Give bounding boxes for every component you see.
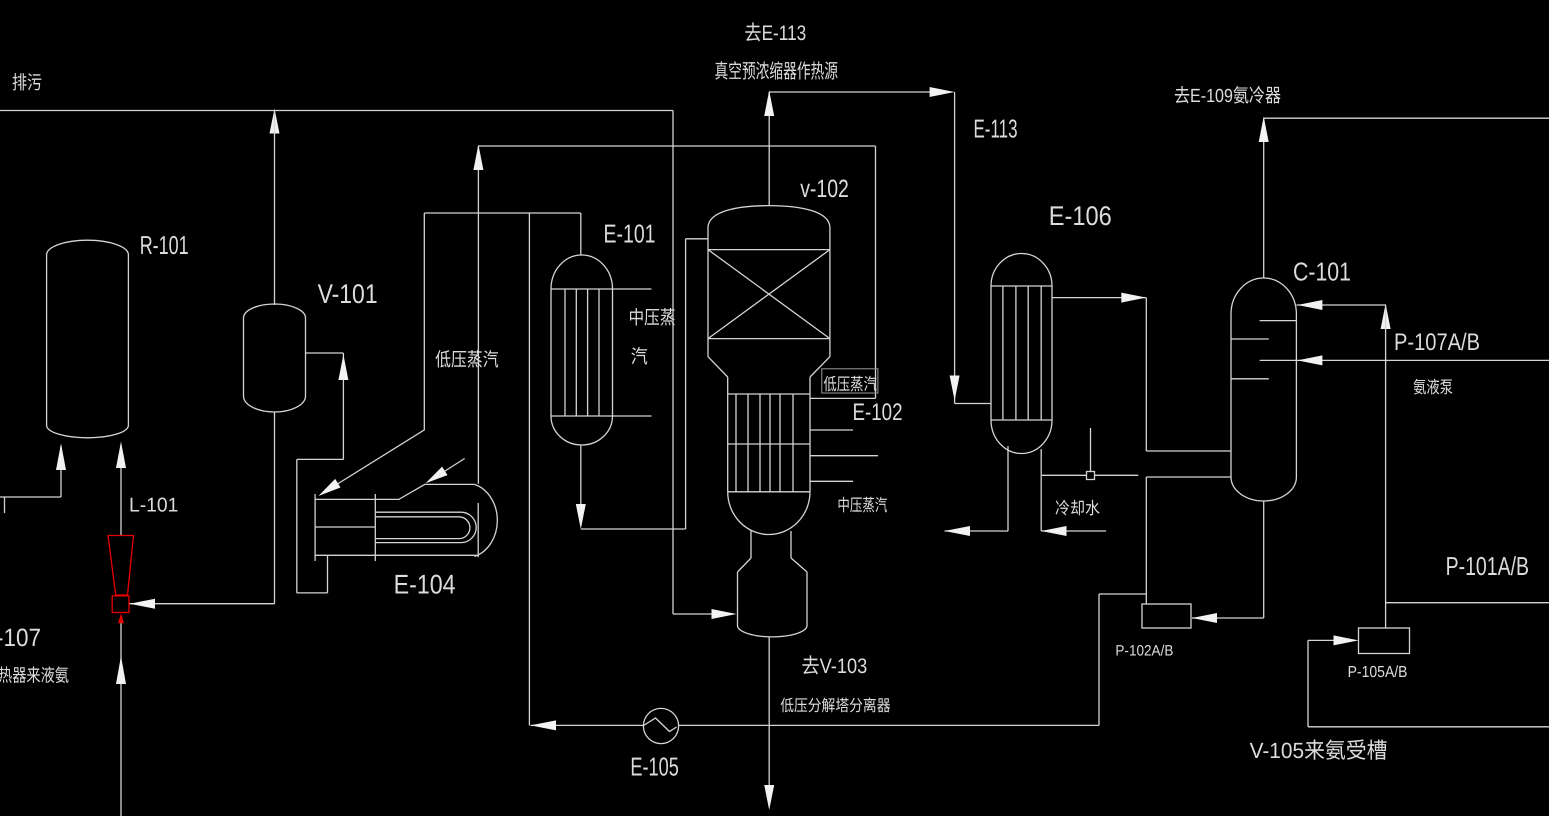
svg-text:-107: -107 — [0, 624, 41, 652]
arrow up into R-101 bottom center — [116, 442, 126, 469]
heat exchanger E-101 shell — [551, 255, 613, 445]
heat exchanger E-106 tubesheet lines — [991, 286, 1052, 420]
wire v-102 side nozzles — [810, 398, 878, 481]
pump P-102A/B box — [1142, 604, 1191, 628]
wire E-101 bottom outlet — [580, 445, 582, 517]
svg-text:冷却水: 冷却水 — [1055, 499, 1100, 518]
heat exchanger E-105 zigzag — [644, 718, 677, 732]
arrow left at recycle riser bottom — [531, 720, 557, 730]
wire blowdown drop to v-102 funnel — [673, 111, 713, 615]
svg-text:v-102: v-102 — [800, 175, 849, 203]
wire low pressure steam drop to E-104 bonnet — [477, 146, 479, 484]
crosshair cursor pick box — [1087, 472, 1095, 480]
heat exchanger E-104 hairpin tube inner — [375, 517, 470, 539]
column v-102 packing X section — [708, 250, 830, 339]
wire C-101 bottom center to P-102 — [1192, 501, 1264, 618]
svg-text:E-106: E-106 — [1049, 201, 1112, 231]
column v-102 cone reducer — [708, 357, 830, 377]
arrow right at overhead east end — [930, 87, 955, 97]
column C-101 trays — [1231, 321, 1296, 379]
arrow left cooling water out — [945, 526, 971, 536]
heat exchanger E-105 circle — [643, 708, 678, 743]
wire P-107 riser from P-105 — [1385, 305, 1387, 628]
wire V-101 right nozzle loop — [297, 353, 344, 593]
svg-text:C-101: C-101 — [1293, 257, 1351, 287]
arrow up at v-102 overhead — [764, 91, 774, 117]
svg-text:低压蒸汽: 低压蒸汽 — [435, 350, 499, 371]
wire E-106 cooling water out — [945, 530, 1009, 532]
wire ejector motive feed lower — [120, 623, 122, 816]
arrow up into R-101 bottom left — [56, 444, 66, 471]
vessel V-101 — [244, 304, 306, 412]
arrow down at v-102 bottoms — [764, 785, 774, 810]
arrow left into C-101 upper nozzle — [1297, 300, 1322, 310]
arrow red small up into ejector bottom — [118, 614, 124, 624]
arrow left into E-106 bottom — [1041, 526, 1066, 536]
wire V-101 bottom drop to ejector suction — [274, 412, 276, 604]
arrow right into P-105 pump — [1334, 635, 1359, 645]
arrow up on ejector motive feed — [116, 656, 126, 684]
wire recycle branch junction — [1099, 594, 1146, 725]
wire R-101 center feed upper — [120, 446, 122, 535]
wire ejector suction from V-101 drop — [130, 603, 275, 605]
svg-text:真空预浓缩器作热源: 真空预浓缩器作热源 — [715, 61, 839, 83]
wire recycle riser x529 — [528, 213, 530, 725]
heat exchanger E-104 hairpin tube outer — [375, 512, 476, 542]
arrow right into v-102 funnel — [712, 609, 737, 619]
heat exchanger E-104 right bonnet — [475, 484, 498, 557]
svg-text:V-101: V-101 — [318, 279, 378, 309]
vessel R-101 — [47, 240, 129, 438]
svg-text:E-101: E-101 — [604, 219, 656, 249]
svg-text:去V-103: 去V-103 — [801, 655, 867, 678]
svg-text:V-105来氨受槽: V-105来氨受槽 — [1250, 738, 1388, 763]
wire E-106 outlet to C-101 — [1052, 298, 1231, 451]
column v-102 neck — [751, 531, 791, 559]
arrow up at C-101 overhead — [1259, 117, 1269, 143]
pump P-105A/B box — [1359, 628, 1410, 654]
wire top cross header y213 — [424, 212, 581, 214]
arrow diagonal onto E-104 shell top — [426, 467, 448, 484]
wire C-101 overhead to E-109 — [1264, 118, 1549, 278]
svg-text:中压蒸汽: 中压蒸汽 — [837, 496, 887, 515]
svg-text:E-104: E-104 — [394, 570, 456, 600]
svg-text:P-105A/B: P-105A/B — [1348, 664, 1408, 681]
crosshair cursor vertical — [1090, 428, 1092, 472]
svg-text:E-113: E-113 — [974, 114, 1018, 144]
svg-text:P-102A/B: P-102A/B — [1115, 643, 1173, 660]
svg-text:P-101A/B: P-101A/B — [1446, 551, 1529, 581]
wire steam header y146 to v-102 — [478, 146, 875, 398]
arrow up at reflux elbow — [1381, 304, 1391, 330]
wire blowdown header — [0, 110, 673, 112]
heat exchanger E-104 shell outline — [315, 484, 478, 555]
svg-text:P-107A/B: P-107A/B — [1394, 329, 1480, 356]
svg-text:去E-109氨冷器: 去E-109氨冷器 — [1174, 86, 1281, 107]
arrow left into P-102 pump — [1192, 613, 1217, 623]
heat exchanger E-106 shell — [991, 254, 1052, 454]
column v-102 shell top — [708, 206, 830, 357]
arrow left into ejector side — [130, 599, 156, 609]
heat exchanger E-106 tubes — [1003, 286, 1041, 420]
wire flow indication diagonal at E-104 — [430, 459, 465, 481]
svg-text:R-101: R-101 — [140, 230, 189, 260]
arrow right at E-106 outlet elbow — [1121, 293, 1146, 303]
arrow up at steam header west end — [473, 145, 483, 171]
arrow down at E-101 outlet — [576, 504, 586, 529]
wire E-101 top nozzle — [580, 213, 582, 255]
svg-text:低压蒸汽: 低压蒸汽 — [823, 375, 877, 394]
ejector L-101 funnel (red) — [108, 536, 134, 596]
svg-text:氨液泵: 氨液泵 — [1413, 378, 1453, 397]
wire E-106 bottom legs — [1008, 446, 1041, 531]
arrow left into C-101 mid nozzle — [1297, 355, 1322, 365]
heat exchanger E-101 tubes — [565, 289, 599, 416]
wire P-101 suction header — [1386, 602, 1549, 604]
wire C-101 bottoms left to pump — [1146, 477, 1231, 604]
svg-text:L-101: L-101 — [129, 495, 178, 517]
svg-text:汽: 汽 — [631, 347, 648, 368]
wire E-113 drop to E-106 — [955, 92, 991, 404]
column v-102 funnel — [738, 558, 808, 637]
svg-text:热器来液氨: 热器来液氨 — [0, 666, 69, 686]
wire v-102 top vapor line — [769, 92, 930, 206]
wire cooling water in — [1041, 530, 1106, 532]
arrow up into blowdown header from V-101 — [270, 109, 280, 134]
ejector L-101 body square (red) — [112, 596, 129, 613]
arrow down on E-113 drop — [950, 376, 960, 401]
heat exchanger E-102 tubes — [736, 394, 793, 492]
wire R-101 left feed — [0, 446, 61, 513]
svg-text:排污: 排污 — [12, 73, 42, 94]
wire reflux into C-101 upper — [1296, 304, 1385, 306]
svg-text:去E-113: 去E-113 — [744, 22, 806, 45]
arrow diagonal into E-104 left channel — [318, 479, 340, 496]
svg-text:E-105: E-105 — [630, 752, 678, 782]
heat exchanger E-101 tubesheet lines — [551, 289, 652, 416]
node 低压蒸汽 frame at v-102 — [822, 369, 878, 393]
svg-text:低压分解塔分离器: 低压分解塔分离器 — [780, 697, 890, 715]
heat exchanger E-104 left tubesheet — [314, 494, 316, 561]
wire E-105 recycle line — [531, 724, 1100, 726]
wire v-102 bottom outlet — [768, 638, 770, 794]
column v-102 bottom head — [728, 492, 810, 535]
column v-102 lower shell E-102 bundle — [728, 377, 810, 492]
wire V-101 top riser — [274, 111, 276, 306]
wire V-105 supply into P-105 — [1308, 640, 1549, 726]
wire E-101 outlet to v-102 riser — [581, 239, 708, 529]
column C-101 shell — [1231, 278, 1296, 501]
svg-text:E-102: E-102 — [853, 399, 903, 426]
wire E-104 inlet drop with elbow — [323, 213, 424, 493]
wire P-107 feed into C-101 — [1296, 359, 1549, 361]
heat exchanger E-104 second tubesheet — [374, 494, 376, 561]
crosshair cursor horizontal — [1042, 474, 1138, 476]
arrow up into V-101 right nozzle — [338, 355, 348, 381]
svg-text:中压蒸: 中压蒸 — [629, 308, 676, 329]
